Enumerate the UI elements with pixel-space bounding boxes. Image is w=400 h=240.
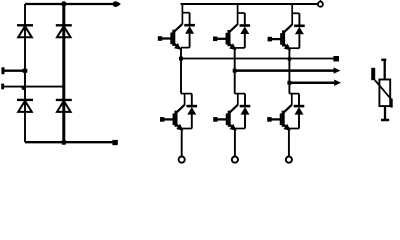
node AC1/leg1 junction (23, 69, 28, 73)
wire DC+ top rail of rectifier (25, 3, 114, 5)
wire top node bar leg 3 (292, 12, 299, 14)
terminal AC2 tag (1, 84, 4, 90)
wire emitter node bar leg 3 (289, 47, 299, 49)
transistor T3 (IGBT, top of leg 3) (268, 25, 292, 51)
terminal DC+ of rectifier (dot) (113, 1, 119, 7)
node phase branch leg 1 (179, 57, 183, 61)
terminal W (arrow pad) (334, 80, 341, 86)
wire top node bar leg 2 (238, 12, 245, 14)
wire top node bar lower leg 3 (289, 93, 299, 95)
wire emitter node bar leg 1 (181, 47, 190, 49)
wire rectifier leg 2 (thick) (62, 1, 65, 144)
wire emitter terminal lead leg 2 (234, 129, 236, 157)
terminal V (arrow pad) (334, 67, 341, 73)
wire collector lead T5 (237, 94, 239, 106)
diode D10 (antiparallel to T6) (294, 94, 305, 129)
wire emitter node bar lower leg 1 (182, 128, 192, 130)
terminal DC+ lead tick (319, 0, 321, 2)
diode D8 (antiparallel to T4) (187, 94, 198, 129)
terminal U (square pad) (333, 56, 339, 62)
terminal DC+ of inverter (circle) (318, 2, 323, 7)
transistor T6 (IGBT, bottom of leg 3) (267, 105, 291, 131)
wire DC- bottom rail of rectifier (25, 141, 113, 143)
wire phase midpoint leg 2 (234, 48, 236, 94)
wire top node bar lower leg 2 (235, 93, 245, 95)
wire emitter node bar lower leg 3 (289, 128, 299, 130)
diode D3 (rectifier leg2 top) (56, 25, 72, 37)
wire thermistor bottom lead (384, 106, 386, 119)
terminal emitter T6 (circle) (286, 157, 292, 163)
diode D9 (antiparallel to T5) (240, 94, 251, 129)
transistor T2 (IGBT, top of leg 2) (213, 25, 237, 51)
diode D2 (rectifier leg1 bottom) (17, 100, 33, 112)
terminal thermistor bottom tick (381, 119, 389, 122)
wire phase output V (235, 69, 334, 72)
transistor T5 (IGBT, bottom of leg 2) (213, 105, 237, 131)
wire rectifier leg 1 (24, 4, 26, 142)
terminal DC- of rectifier (square pad) (112, 140, 117, 145)
wire AC input 2 (3, 86, 64, 88)
terminal emitter T4 (circle) (179, 157, 185, 163)
node leg2/bottom-rail junction (62, 140, 66, 144)
diode D1 (rectifier leg1 top) (17, 25, 33, 37)
wire top node bar leg 1 (182, 12, 189, 14)
wire collector lead T1 (181, 4, 183, 25)
terminal thermistor top tick (381, 59, 386, 62)
node AC2/leg1 crossing dot (22, 86, 26, 90)
thermistor diagonal bottom tick (391, 99, 393, 108)
terminal emitter T5 (circle) (232, 157, 238, 163)
wire emitter terminal lead leg 3 (288, 129, 290, 157)
wire emitter terminal lead leg 1 (181, 129, 183, 157)
wire collector lead T6 (291, 94, 293, 106)
wire phase midpoint leg 1 (180, 48, 182, 94)
wire emitter node bar lower leg 2 (235, 128, 245, 130)
wire collector lead T4 (184, 94, 186, 106)
diode D5 (antiparallel to T1) (184, 13, 195, 48)
terminal AC1 tag (1, 67, 4, 74)
transistor T1 (IGBT, top of leg 1) (158, 24, 182, 50)
thermistor R1 (NTC) body (379, 80, 390, 107)
node phase branch leg 3 (287, 81, 291, 85)
wire thermistor top lead (384, 59, 386, 80)
node phase U / leg3 crossing dot (287, 57, 291, 61)
diode D6 (antiparallel to T2) (240, 13, 251, 48)
terminal DC+ pad tip (118, 2, 121, 6)
wire phase output W (289, 81, 334, 84)
wire emitter node bar leg 2 (235, 47, 245, 49)
wire DC+ rail of inverter (181, 3, 319, 5)
diode D7 (antiparallel to T3) (294, 13, 305, 48)
thermistor diagonal stroke (375, 80, 392, 99)
wire collector lead T3 (291, 4, 293, 25)
wire phase output U (181, 58, 334, 60)
wire AC input 1 (3, 69, 25, 71)
diode D4 (rectifier leg2 bottom) (56, 100, 72, 112)
wire top node bar lower leg 1 (181, 93, 192, 95)
node phase branch leg 2 (233, 69, 237, 73)
transistor T4 (IGBT, bottom of leg 1) (160, 105, 184, 131)
node leg2/top-rail junction (62, 2, 66, 6)
thermistor diagonal top tick (371, 68, 375, 80)
wire collector lead T2 (237, 4, 239, 25)
wire phase midpoint leg 3 (288, 48, 290, 93)
